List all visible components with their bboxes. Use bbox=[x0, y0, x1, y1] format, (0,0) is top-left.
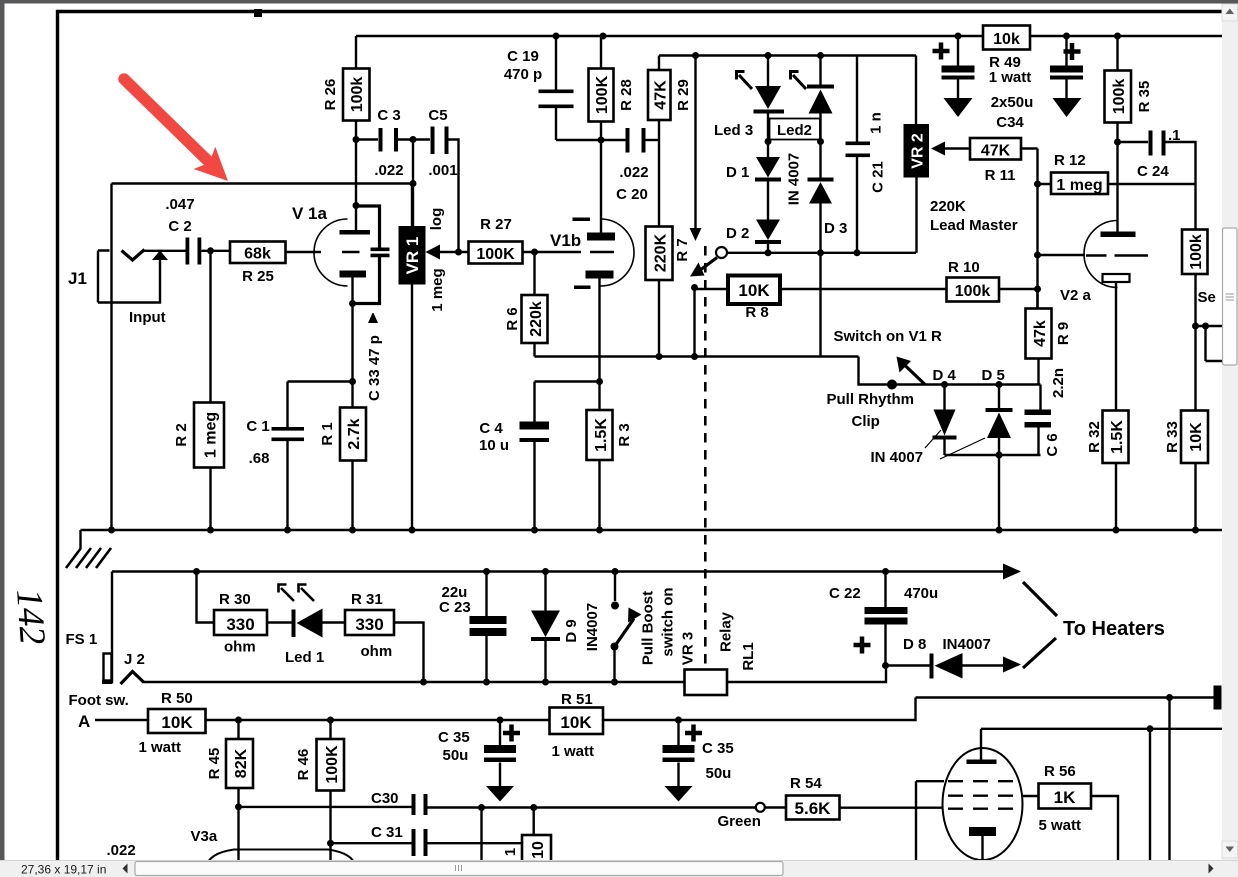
svg-text:D 5: D 5 bbox=[982, 367, 1005, 384]
resistor R56 bbox=[1023, 796, 1119, 861]
node: rail-drop bbox=[692, 52, 699, 59]
svg-text:C30: C30 bbox=[371, 790, 399, 807]
svg-text:C 35: C 35 bbox=[438, 729, 470, 746]
node: Led2-D3 bbox=[817, 138, 824, 145]
svg-text:ohm: ohm bbox=[224, 639, 256, 656]
svg-text:.047: .047 bbox=[165, 196, 194, 213]
arrow: heater bottom bbox=[1003, 657, 1021, 673]
wire: R31 to foot row bbox=[394, 623, 424, 683]
node: D4 top bbox=[941, 381, 948, 388]
svg-text:V3a: V3a bbox=[191, 828, 218, 845]
svg-text:Clip: Clip bbox=[852, 413, 880, 430]
node: row697 junction bbox=[1166, 694, 1173, 701]
wire: C2 to R25 bbox=[201, 250, 230, 252]
node: R2 tap bbox=[207, 247, 214, 254]
node: R8 branch bottom bbox=[691, 353, 698, 360]
svg-text:47k: 47k bbox=[1032, 320, 1049, 347]
output tube cathode bbox=[969, 827, 996, 836]
chassis ground symbol bbox=[79, 530, 81, 548]
resistor R46 bbox=[329, 720, 331, 843]
capacitor C1 bbox=[272, 427, 305, 441]
svg-text:V1b: V1b bbox=[550, 231, 581, 250]
triode V2a bbox=[1084, 221, 1118, 288]
capacitor C21 bbox=[856, 56, 858, 253]
node: R26-C3 junction bbox=[353, 136, 360, 143]
svg-text:VR 2: VR 2 bbox=[910, 133, 927, 169]
resistor R8 bbox=[728, 276, 780, 305]
capacitor C6 bbox=[1039, 385, 1041, 456]
border tick bbox=[254, 9, 262, 17]
svg-text:J1: J1 bbox=[68, 269, 87, 288]
node: D5 bottom bbox=[996, 452, 1003, 459]
wire: R46 into V3a bbox=[329, 843, 331, 861]
svg-text:.001: .001 bbox=[428, 162, 457, 179]
svg-text:R 2: R 2 bbox=[173, 423, 190, 446]
wire: V2a cathode down bbox=[1115, 282, 1117, 411]
wire: J1 column bbox=[110, 184, 112, 531]
svg-text:R 9: R 9 bbox=[1055, 322, 1072, 345]
svg-text:R 26: R 26 bbox=[322, 79, 339, 111]
svg-text:1 meg: 1 meg bbox=[203, 412, 220, 458]
node: C3-C5 junction bbox=[410, 136, 417, 143]
node: C22 top bbox=[882, 568, 889, 575]
node: C22-D8 bbox=[882, 662, 889, 669]
capacitor C23 bbox=[485, 572, 487, 683]
svg-text:2x50u: 2x50u bbox=[991, 94, 1034, 111]
svg-text:.68: .68 bbox=[249, 450, 270, 467]
dashed link line bbox=[704, 246, 707, 666]
node: V1a anode junction bbox=[353, 202, 360, 209]
node: boost bottom bbox=[611, 679, 618, 686]
svg-text:IN4007: IN4007 bbox=[584, 603, 601, 651]
svg-text:C 19: C 19 bbox=[507, 48, 539, 65]
svg-text:R 35: R 35 bbox=[1136, 81, 1153, 113]
svg-text:Input: Input bbox=[129, 309, 166, 326]
output tube grids bbox=[948, 781, 1020, 809]
resistor R25 bbox=[230, 242, 286, 264]
svg-text:330: 330 bbox=[355, 615, 383, 634]
svg-text:10k: 10k bbox=[993, 31, 1020, 48]
capacitor C19 bbox=[555, 36, 557, 140]
svg-text:V2 a: V2 a bbox=[1060, 287, 1092, 304]
wire: V1b cathode down bbox=[598, 279, 600, 382]
wire: feedback line bbox=[112, 140, 414, 227]
resistor R33 bbox=[1194, 326, 1196, 530]
svg-text:C 22: C 22 bbox=[829, 585, 861, 602]
node: ground R3 bbox=[596, 527, 603, 534]
diode D1 bbox=[756, 157, 780, 178]
svg-text:R 32: R 32 bbox=[1086, 421, 1103, 453]
svg-text:100K: 100K bbox=[476, 246, 515, 263]
svg-text:R 3: R 3 bbox=[616, 423, 633, 446]
svg-text:R 6: R 6 bbox=[504, 307, 521, 330]
svg-text:Pull Rhythm: Pull Rhythm bbox=[827, 391, 915, 408]
svg-text:5.6K: 5.6K bbox=[795, 799, 832, 818]
wire: J1 to C2 bbox=[143, 250, 186, 252]
svg-text:47K: 47K bbox=[653, 80, 670, 110]
svg-text:C 35: C 35 bbox=[702, 740, 734, 757]
svg-text:A: A bbox=[78, 712, 90, 731]
node: ground C1 bbox=[284, 527, 291, 534]
svg-text:Pull Boost: Pull Boost bbox=[640, 591, 657, 665]
svg-text:switch on: switch on bbox=[660, 587, 677, 656]
diode D2 bbox=[756, 220, 780, 241]
triode V1b bbox=[601, 219, 635, 286]
svg-text:330: 330 bbox=[226, 615, 254, 634]
wire: R6 bottom rail bbox=[535, 355, 859, 357]
wire: R54 to tube bbox=[840, 781, 945, 861]
node: ground R2 bbox=[207, 527, 214, 534]
svg-text:C 33 47 p: C 33 47 p bbox=[366, 335, 383, 401]
svg-text:Led 3: Led 3 bbox=[714, 122, 753, 139]
svg-text:D 1: D 1 bbox=[726, 164, 749, 181]
node: feedback-VR1 bbox=[410, 180, 417, 187]
wire: screen rail y55 bbox=[659, 54, 916, 56]
svg-text:R 10: R 10 bbox=[948, 259, 980, 276]
switch pull boost bbox=[614, 572, 616, 602]
wire: R11 column down bbox=[1036, 149, 1038, 309]
svg-text:50u: 50u bbox=[706, 765, 732, 782]
node: ground R1 bbox=[349, 527, 356, 534]
svg-text:VR 1: VR 1 bbox=[403, 237, 422, 275]
svg-text:Foot sw.: Foot sw. bbox=[69, 692, 129, 709]
resistor R12 bbox=[1038, 183, 1196, 185]
svg-text:R 1: R 1 bbox=[319, 422, 336, 445]
svg-text:D 4: D 4 bbox=[933, 367, 957, 384]
node: V2a grid tap bbox=[1034, 252, 1041, 259]
capacitor C34a bbox=[957, 36, 959, 98]
node: 728 drop bbox=[1147, 725, 1154, 732]
svg-text:C 31: C 31 bbox=[371, 824, 403, 841]
resistor R28 bbox=[600, 36, 602, 69]
svg-text:5 watt: 5 watt bbox=[1039, 817, 1082, 834]
relay RL1 bbox=[685, 670, 728, 696]
svg-text:D 8: D 8 bbox=[903, 636, 926, 653]
resistor 100k send bbox=[1182, 230, 1208, 275]
svg-text:100K: 100K bbox=[594, 75, 611, 114]
svg-text:R 31: R 31 bbox=[351, 591, 383, 608]
wire: footswitch row bbox=[144, 681, 685, 683]
node: C21 bottom bbox=[854, 249, 861, 256]
svg-text:10K: 10K bbox=[1188, 422, 1205, 452]
node: boost top bbox=[612, 568, 619, 575]
capacitor C33 bracket bbox=[353, 206, 380, 304]
resistor R54 bbox=[786, 796, 840, 820]
tube V3a envelope bbox=[206, 850, 356, 877]
svg-text:R 12: R 12 bbox=[1054, 152, 1086, 169]
svg-text:C5: C5 bbox=[428, 107, 447, 124]
svg-text:C 20: C 20 bbox=[616, 186, 648, 203]
svg-text:10 u: 10 u bbox=[479, 437, 509, 454]
svg-text:1 meg: 1 meg bbox=[429, 268, 446, 311]
svg-text:R 33: R 33 bbox=[1164, 421, 1181, 453]
svg-text:J 2: J 2 bbox=[124, 651, 145, 668]
LED Led3 bbox=[767, 56, 769, 142]
node: C23 bottom bbox=[483, 679, 490, 686]
svg-text:220K: 220K bbox=[930, 198, 966, 215]
svg-text:V 1a: V 1a bbox=[292, 204, 328, 223]
resistor R32 bbox=[1103, 411, 1129, 464]
svg-text:220k: 220k bbox=[528, 301, 545, 337]
svg-text:R 51: R 51 bbox=[561, 691, 593, 708]
svg-text:82K: 82K bbox=[233, 748, 250, 778]
node: bus-C34a bbox=[955, 33, 962, 40]
svg-text:R 28: R 28 bbox=[618, 79, 635, 111]
svg-text:R 30: R 30 bbox=[219, 591, 251, 608]
node: D9 top bbox=[542, 568, 549, 575]
node: D5 top bbox=[996, 381, 1003, 388]
resistor R26 bbox=[355, 36, 357, 232]
jack J1 bbox=[98, 251, 160, 303]
wire: C19 to C20 bbox=[556, 139, 626, 141]
switch on V1R contact bbox=[716, 247, 727, 258]
node: ground J1 column bbox=[108, 527, 115, 534]
wire: D4-D5-C6 bottom bbox=[945, 454, 1041, 456]
svg-text:.022: .022 bbox=[619, 164, 648, 181]
svg-text:C 24: C 24 bbox=[1137, 163, 1169, 180]
resistor R50 bbox=[95, 719, 148, 721]
capacitor C20 bbox=[626, 128, 646, 153]
resistor 10K bottom bbox=[522, 835, 551, 862]
svg-text:10K: 10K bbox=[738, 281, 770, 300]
svg-text:1 watt: 1 watt bbox=[552, 743, 595, 760]
svg-text:R 8: R 8 bbox=[745, 304, 768, 321]
arrow: heater top bbox=[1003, 564, 1021, 580]
wire: R25 to V1a grid bbox=[286, 251, 322, 253]
node: bus-C34b bbox=[1063, 33, 1070, 40]
capacitor C35b bbox=[677, 720, 679, 786]
resistor R45 bbox=[237, 720, 239, 807]
svg-text:100k: 100k bbox=[1188, 234, 1205, 270]
node: ground R32 bbox=[1113, 527, 1120, 534]
resistor R1 bbox=[351, 382, 353, 531]
svg-text:R 56: R 56 bbox=[1044, 763, 1076, 780]
node: send stub bbox=[1202, 323, 1209, 330]
node: V1a cathode junction bbox=[349, 300, 356, 307]
diode D4 bbox=[943, 385, 945, 456]
arrow: feed down bbox=[690, 228, 702, 241]
resistor R49 bbox=[983, 26, 1030, 50]
capacitor C35a bbox=[499, 720, 501, 786]
wire: boost feed drop bbox=[694, 56, 696, 229]
svg-text:D 9: D 9 bbox=[563, 619, 580, 642]
wire: plate row 728 bbox=[981, 728, 1222, 730]
svg-text:1 n: 1 n bbox=[868, 112, 885, 134]
svg-text:100k: 100k bbox=[349, 77, 366, 113]
triode V1a bbox=[314, 219, 348, 286]
diode D3 bbox=[819, 142, 821, 253]
wire: V2a grid bbox=[1038, 254, 1086, 256]
svg-text:1.5K: 1.5K bbox=[593, 418, 610, 452]
node: R46 top bbox=[327, 717, 334, 724]
label box Led2 bbox=[770, 119, 821, 140]
svg-text:Green: Green bbox=[718, 813, 761, 830]
node: D2 bottom bbox=[765, 249, 772, 256]
svg-text:R 7: R 7 bbox=[674, 238, 691, 261]
capacitor C24 bbox=[1118, 142, 1196, 230]
capacitor C3 bbox=[356, 138, 413, 140]
node: C35a top bbox=[497, 717, 504, 724]
node: R6 tap bbox=[531, 249, 538, 256]
svg-text:470 p: 470 p bbox=[504, 66, 542, 83]
node: D9 bottom bbox=[542, 679, 549, 686]
svg-text:C34: C34 bbox=[996, 114, 1024, 131]
svg-text:100k: 100k bbox=[955, 283, 991, 300]
node: ground VR1 bbox=[409, 527, 416, 534]
svg-text:C 1: C 1 bbox=[246, 418, 269, 435]
node: R12 tap bbox=[1034, 181, 1041, 188]
svg-text:220K: 220K bbox=[653, 233, 670, 272]
svg-text:47K: 47K bbox=[981, 143, 1011, 160]
resistor R27 bbox=[469, 242, 523, 264]
wire: heater bus bbox=[112, 572, 1006, 684]
svg-text:10K: 10K bbox=[560, 713, 592, 732]
node: switch to R8 bbox=[691, 284, 698, 291]
resistor R35 bbox=[1116, 36, 1118, 142]
svg-text:10K: 10K bbox=[161, 713, 193, 732]
resistor R2 bbox=[209, 251, 211, 530]
node: ground R33 bbox=[1192, 527, 1199, 534]
capacitor C4 bbox=[535, 382, 600, 531]
node: cathode-R1-C1 bbox=[349, 378, 356, 385]
node: ground D5 bbox=[996, 527, 1003, 534]
capacitor C22 bbox=[884, 572, 886, 666]
switch pull rhythm pivot bbox=[887, 380, 897, 390]
wire: V1R rhythm rail bbox=[821, 253, 893, 385]
node: R45 bottom bbox=[235, 803, 242, 810]
svg-text:2.2n: 2.2n bbox=[1050, 368, 1067, 398]
svg-text:Led 1: Led 1 bbox=[285, 649, 324, 666]
LED Led1 bbox=[267, 621, 345, 623]
node: D3 bottom bbox=[817, 249, 824, 256]
resistor R6 bbox=[533, 252, 535, 357]
svg-text:R 45: R 45 bbox=[206, 748, 223, 780]
wire: foot row right bbox=[727, 666, 886, 683]
wire: V2a plate up bbox=[1116, 142, 1118, 232]
svg-text:Se: Se bbox=[1198, 289, 1216, 306]
svg-text:IN 4007: IN 4007 bbox=[871, 449, 924, 466]
node: R46 bottom bbox=[327, 840, 334, 847]
svg-text:1.5K: 1.5K bbox=[1109, 420, 1126, 454]
wire: cathode down bbox=[351, 304, 353, 382]
svg-text:100k: 100k bbox=[1111, 79, 1128, 115]
svg-text:C 21: C 21 bbox=[870, 161, 887, 193]
wire: send out bbox=[1196, 326, 1223, 361]
capacitor C2 bbox=[186, 238, 202, 265]
svg-text:C 3: C 3 bbox=[377, 107, 400, 124]
svg-text:1 meg: 1 meg bbox=[1056, 177, 1102, 194]
node: R10 tap bbox=[1034, 286, 1041, 293]
svg-text:470u: 470u bbox=[904, 585, 938, 602]
wire: VR1 wiper to R27 bbox=[440, 251, 469, 253]
wire: C1 link bbox=[288, 382, 353, 428]
resistor R10 bbox=[947, 278, 1000, 302]
svg-text:1K: 1K bbox=[1054, 788, 1076, 807]
svg-text:ohm: ohm bbox=[361, 643, 393, 660]
node: cathode-R3-C4 bbox=[596, 378, 603, 385]
node: send R33 bbox=[1192, 323, 1199, 330]
svg-text:1 watt: 1 watt bbox=[139, 739, 182, 756]
diode D5 bbox=[998, 385, 1000, 456]
node: R45 top bbox=[235, 717, 242, 724]
node: led return bbox=[420, 679, 427, 686]
svg-text:IN4007: IN4007 bbox=[943, 636, 991, 653]
svg-text:2.7k: 2.7k bbox=[346, 418, 363, 449]
resistor R51 bbox=[550, 708, 604, 735]
svg-text:C 4: C 4 bbox=[479, 420, 503, 437]
svg-text:RL1: RL1 bbox=[740, 642, 757, 670]
svg-text:68k: 68k bbox=[244, 246, 271, 263]
node: R7 bottom bbox=[656, 353, 663, 360]
node: wiper-C5 bbox=[455, 249, 462, 256]
svg-text:1 watt: 1 watt bbox=[989, 69, 1032, 86]
svg-text:1: 1 bbox=[502, 848, 519, 856]
svg-text:R 25: R 25 bbox=[242, 268, 274, 285]
node: bus-R35 bbox=[1114, 33, 1121, 40]
svg-text:R 29: R 29 bbox=[675, 79, 692, 111]
output tube V4 envelope bbox=[943, 748, 1023, 860]
svg-text:Relay: Relay bbox=[718, 611, 735, 652]
svg-text:R 50: R 50 bbox=[161, 690, 193, 707]
diode D9 bbox=[544, 572, 546, 683]
capacitor C34b bbox=[1065, 36, 1067, 98]
svg-text:D 3: D 3 bbox=[824, 220, 847, 237]
wire: D2 row bbox=[727, 252, 916, 254]
potentiometer VR1 bbox=[411, 184, 413, 531]
node: ground C4 bbox=[531, 527, 538, 534]
resistor R9 bbox=[1038, 289, 1039, 385]
resistor R30 bbox=[197, 572, 215, 623]
capacitor C5 bbox=[413, 140, 459, 253]
red annotation arrow bbox=[124, 79, 228, 181]
svg-text:C 2: C 2 bbox=[168, 218, 191, 235]
wire: rhythm row bbox=[892, 383, 1041, 385]
svg-text:D 2: D 2 bbox=[726, 225, 749, 242]
LED Led2 bbox=[819, 56, 821, 142]
resistor R7 bbox=[646, 227, 673, 281]
svg-text:27,36 x 19,17 in: 27,36 x 19,17 in bbox=[21, 863, 106, 877]
node: bottom row taps bbox=[478, 804, 485, 811]
svg-text:10: 10 bbox=[530, 841, 547, 859]
svg-text:R 27: R 27 bbox=[480, 216, 512, 233]
svg-text:R 11: R 11 bbox=[985, 167, 1016, 184]
svg-text:50u: 50u bbox=[443, 747, 469, 764]
svg-text:.022: .022 bbox=[107, 842, 136, 859]
svg-text:142: 142 bbox=[8, 588, 53, 646]
svg-text:C 23: C 23 bbox=[439, 599, 471, 616]
svg-text:log: log bbox=[428, 208, 445, 231]
node: Led3-D1 bbox=[765, 138, 772, 145]
status bar and bottom scrollbar bbox=[0, 861, 1238, 877]
diode D8 bbox=[886, 664, 1004, 666]
svg-text:FS 1: FS 1 bbox=[66, 631, 98, 648]
svg-text:R 54: R 54 bbox=[790, 775, 822, 792]
resistor R29 bbox=[658, 56, 660, 227]
node: C23 top bbox=[483, 568, 490, 575]
node: bus-C19 bbox=[553, 33, 560, 40]
svg-text:Led2: Led2 bbox=[777, 122, 812, 139]
svg-text:To Heaters: To Heaters bbox=[1063, 618, 1165, 640]
svg-text:Switch on V1 R: Switch on V1 R bbox=[834, 328, 943, 345]
wire: top HT bus bbox=[356, 35, 1222, 37]
resistor R3 bbox=[598, 382, 600, 531]
svg-text:Lead Master: Lead Master bbox=[930, 217, 1018, 234]
svg-text:100K: 100K bbox=[324, 745, 341, 784]
wire: right drops bbox=[1150, 698, 1170, 862]
wire: D5 to ground bbox=[998, 455, 1000, 530]
output tube plate bbox=[967, 760, 997, 765]
terminal bar bbox=[1214, 686, 1222, 710]
